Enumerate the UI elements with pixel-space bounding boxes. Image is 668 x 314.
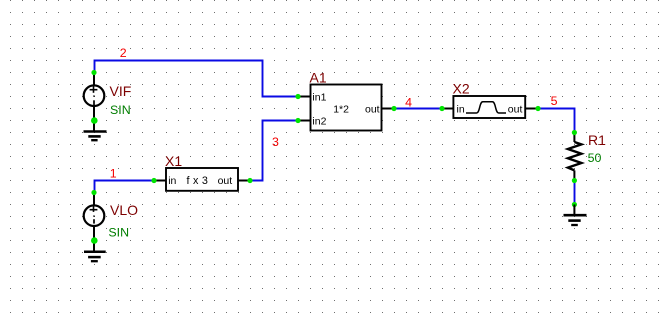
junction dot X1 in: [151, 178, 156, 183]
wire net 1: [95, 181, 155, 194]
svg-text:A1: A1: [310, 69, 327, 85]
wire net 3: [250, 121, 298, 181]
svg-text:5: 5: [551, 94, 558, 108]
voltage source VIF: [84, 73, 105, 121]
junction dot X2 out: [535, 106, 540, 111]
junction dot VIF bottom / ground: [91, 117, 98, 124]
junction dot ground (right): [572, 202, 577, 207]
svg-text:X2: X2: [453, 81, 470, 97]
bandpass filter block X2: [442, 96, 538, 118]
svg-text:X1: X1: [165, 153, 182, 169]
wire net 4: [394, 108, 442, 110]
svg-text:in: in: [457, 104, 465, 116]
svg-text:VIF: VIF: [110, 83, 132, 99]
wire net 5: [538, 109, 575, 133]
svg-text:out: out: [218, 175, 233, 187]
svg-text:SIN: SIN: [110, 103, 131, 117]
svg-text:SIN: SIN: [108, 225, 129, 239]
svg-text:2: 2: [120, 46, 127, 60]
svg-text:out: out: [508, 104, 523, 116]
svg-text:1*2: 1*2: [333, 104, 349, 116]
junction dot A1 in2: [295, 118, 300, 123]
ground (below VLO): [84, 241, 106, 261]
svg-text:out: out: [365, 104, 380, 116]
svg-text:R1: R1: [588, 132, 606, 148]
junction dot R1 bottom: [572, 178, 577, 183]
svg-text:1: 1: [110, 166, 117, 180]
frequency multiplier block X1: [154, 168, 250, 191]
junction dot VIF top: [91, 70, 96, 75]
junction dot VLO top: [91, 190, 96, 195]
junction dot X2 in: [439, 106, 444, 111]
junction dot R1 top: [572, 130, 577, 135]
junction dot X1 out: [247, 178, 252, 183]
junction dot A1 in1: [295, 94, 300, 99]
svg-text:f x 3: f x 3: [187, 175, 209, 187]
ground (below R1): [564, 205, 587, 226]
multiplier block A1: [298, 85, 394, 131]
bandpass curve icon: [466, 102, 506, 113]
svg-text:VLO: VLO: [110, 202, 138, 218]
resistor R1: [568, 133, 582, 181]
svg-text:3: 3: [272, 135, 279, 149]
svg-text:4: 4: [405, 96, 412, 110]
voltage source VLO: [84, 193, 105, 242]
ground (below VIF): [84, 121, 107, 141]
svg-text:in1: in1: [312, 92, 326, 104]
junction dot A1 out: [391, 106, 396, 111]
wire R1 to ground: [574, 181, 576, 205]
junction dot VLO bottom / ground: [91, 237, 98, 244]
wire net 2: [95, 61, 299, 97]
svg-text:in: in: [168, 175, 176, 187]
svg-text:in2: in2: [312, 115, 326, 127]
svg-text:50: 50: [588, 151, 602, 165]
